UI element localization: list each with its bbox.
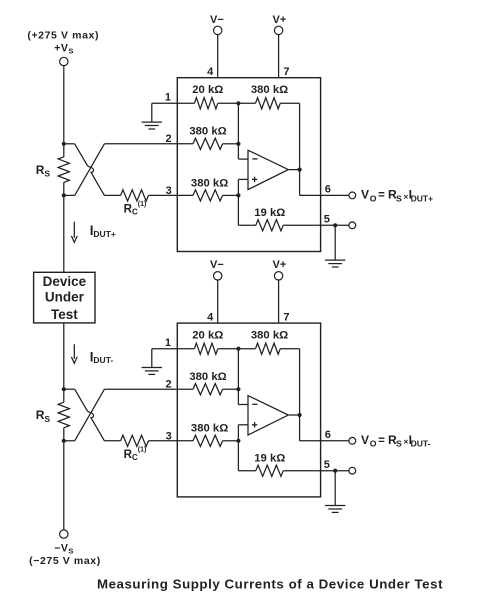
svg-text:380 kΩ: 380 kΩ: [191, 177, 228, 189]
svg-text:7: 7: [283, 312, 289, 324]
svg-text:Under: Under: [45, 290, 85, 305]
svg-text:1: 1: [165, 337, 171, 349]
svg-text:Measuring Supply Currents of a: Measuring Supply Currents of a Device Un…: [97, 576, 443, 591]
svg-text:1: 1: [165, 92, 171, 104]
svg-text:380 kΩ: 380 kΩ: [189, 371, 226, 383]
svg-text:5: 5: [324, 214, 330, 226]
svg-text:20 kΩ: 20 kΩ: [192, 84, 223, 96]
svg-text:19 kΩ: 19 kΩ: [254, 453, 285, 465]
svg-text:380 kΩ: 380 kΩ: [251, 330, 288, 342]
svg-text:RS: RS: [36, 408, 51, 424]
svg-text:(−275 V max): (−275 V max): [29, 555, 101, 567]
svg-text:V+: V+: [273, 14, 287, 26]
svg-text:7: 7: [283, 66, 289, 78]
svg-text:+VS: +VS: [54, 43, 74, 56]
svg-text:380 kΩ: 380 kΩ: [191, 423, 228, 435]
svg-text:2: 2: [165, 133, 171, 145]
svg-text:RC(1): RC(1): [124, 201, 147, 217]
svg-text:380 kΩ: 380 kΩ: [251, 84, 288, 96]
svg-text:4: 4: [207, 66, 214, 78]
svg-text:V+: V+: [273, 259, 287, 271]
svg-text:Device: Device: [43, 274, 87, 289]
svg-text:IDUT-: IDUT-: [90, 349, 114, 365]
svg-text:VO=RS×IDUT-: VO=RS×IDUT-: [361, 433, 431, 449]
svg-text:19 kΩ: 19 kΩ: [254, 207, 285, 219]
svg-text:4: 4: [207, 312, 214, 324]
svg-text:RC(1): RC(1): [124, 446, 147, 462]
svg-text:5: 5: [324, 459, 330, 471]
svg-text:20 kΩ: 20 kΩ: [192, 329, 223, 341]
svg-text:V−: V−: [210, 14, 224, 26]
svg-text:−VS: −VS: [54, 543, 74, 556]
svg-text:6: 6: [325, 184, 331, 196]
svg-text:6: 6: [325, 429, 331, 441]
svg-text:2: 2: [165, 378, 171, 390]
svg-text:V−: V−: [210, 259, 224, 271]
svg-text:380 kΩ: 380 kΩ: [189, 126, 226, 138]
svg-text:Test: Test: [51, 307, 78, 322]
svg-text:RS: RS: [36, 163, 51, 179]
svg-text:3: 3: [166, 431, 172, 443]
svg-text:3: 3: [166, 185, 172, 197]
svg-text:(+275 V max): (+275 V max): [27, 29, 99, 41]
svg-text:VO=RS×IDUT+: VO=RS×IDUT+: [361, 188, 433, 204]
svg-text:IDUT+: IDUT+: [90, 223, 116, 239]
